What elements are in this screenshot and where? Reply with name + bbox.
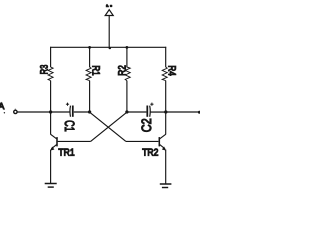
wire: cross-coupling diagonal R2 node to TR1 base (91, 112, 127, 141)
transistor TR1 (50, 134, 74, 158)
junction dot rail/R2 (126, 46, 129, 49)
wire: R2 node to C2 (127, 111, 146, 113)
svg-text:TR1: TR1 (58, 147, 74, 158)
svg-text:R2: R2 (116, 65, 128, 76)
wire: C1 to R1 node (74, 111, 90, 113)
capacitor C1 (62, 103, 77, 132)
resistor R3 (39, 65, 54, 81)
svg-text:R3: R3 (39, 65, 51, 75)
wire: R1 top lead (89, 47, 91, 67)
resistor R4 (162, 65, 177, 80)
wire: top supply rail (50, 46, 166, 48)
wire: R4 top lead from rail (165, 47, 167, 67)
wire: TR2 collector drop (165, 112, 167, 135)
capacitor C2 (139, 103, 154, 133)
power supply symbol +V (105, 4, 113, 50)
svg-text:C1: C1 (62, 120, 77, 131)
terminal B (clipped at edge) (198, 111, 201, 114)
wire: R1 bottom lead (89, 81, 91, 112)
svg-text:R4: R4 (166, 65, 178, 76)
svg-text:C2: C2 (139, 118, 154, 132)
wire: TR1 collector drop (50, 112, 52, 135)
wire: C2 to TR2 collector node (150, 111, 166, 113)
svg-text:A: A (0, 101, 4, 111)
pin tick above terminal A (14, 109, 16, 110)
wire: R2 top lead (126, 47, 128, 67)
junction dot collector TR2 node (164, 110, 167, 113)
wire: TR1 emitter drop (50, 150, 52, 184)
svg-text:TR2: TR2 (142, 148, 158, 159)
resistor R1 (86, 65, 102, 80)
wire: R4 bottom lead to collector node (165, 81, 167, 112)
ground TR2 (160, 184, 172, 188)
junction dot collector TR1 node (49, 110, 52, 113)
wire: R3 top lead from rail (50, 47, 52, 67)
svg-text:R1: R1 (90, 65, 102, 75)
stray dot below A (4, 112, 5, 113)
junction dot R1/base-coupling node (88, 110, 91, 113)
junction dot R2/base-coupling node (125, 110, 128, 113)
resistor R2 (116, 65, 130, 81)
wire: R3 bottom lead to collector node (50, 81, 52, 112)
transistor TR2 (142, 134, 166, 158)
wire: terminal A to TR1 collector node (17, 111, 70, 113)
wire: TR1 base lead (58, 140, 91, 142)
wire: cross-coupling diagonal R1 node to TR2 base (90, 112, 126, 141)
ground TR1 (45, 184, 57, 188)
terminal A (open circle) (14, 110, 17, 113)
wire: TR2 emitter drop (165, 150, 167, 184)
wire: TR2 collector node to output terminal (166, 111, 199, 113)
junction dot rail/R1 (88, 46, 91, 49)
wire: R2 bottom lead (126, 81, 128, 112)
wire: TR2 base lead (126, 140, 158, 142)
